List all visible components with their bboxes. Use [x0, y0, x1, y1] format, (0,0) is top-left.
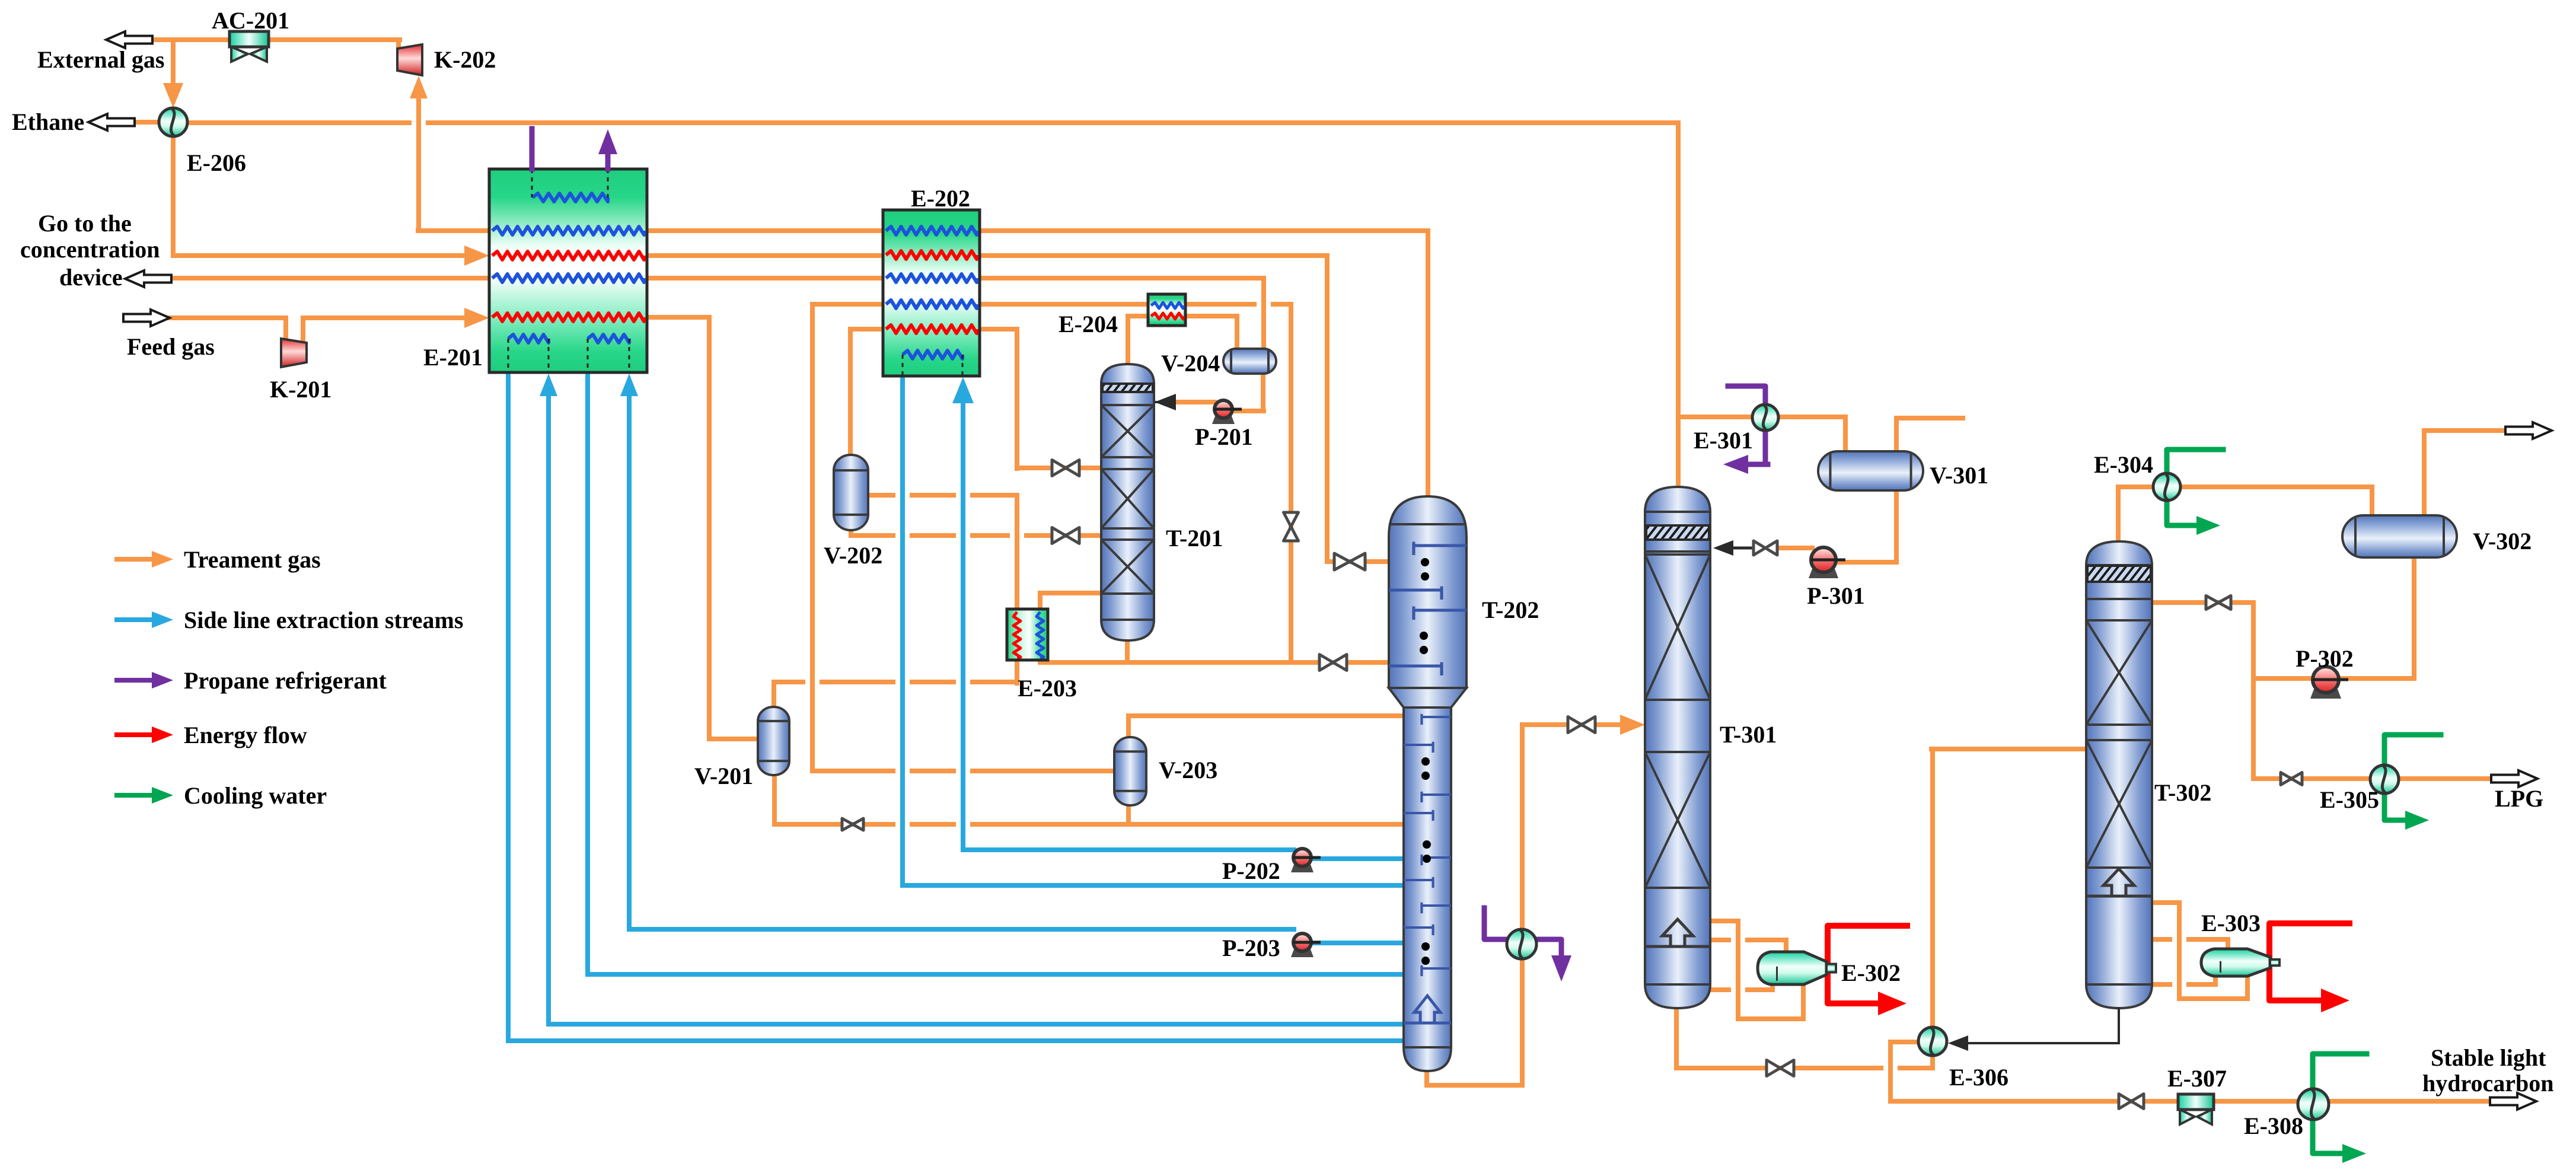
svg-text:device: device	[59, 264, 123, 291]
svg-text:E-305: E-305	[2320, 786, 2379, 813]
svg-text:E-304: E-304	[2094, 451, 2153, 478]
svg-text:Go to the: Go to the	[38, 210, 132, 237]
svg-text:V-301: V-301	[1930, 462, 1988, 489]
svg-text:V-204: V-204	[1161, 350, 1220, 377]
svg-text:E-301: E-301	[1694, 427, 1753, 454]
svg-text:Energy flow: Energy flow	[184, 722, 307, 748]
svg-text:Feed gas: Feed gas	[127, 333, 215, 360]
svg-text:AC-201: AC-201	[212, 7, 289, 34]
svg-text:T-202: T-202	[1482, 597, 1539, 623]
svg-text:V-202: V-202	[824, 542, 882, 569]
svg-text:E-303: E-303	[2201, 910, 2261, 936]
svg-text:LPG: LPG	[2495, 785, 2543, 812]
svg-text:concentration: concentration	[20, 236, 160, 263]
svg-text:Side line extraction streams: Side line extraction streams	[184, 607, 463, 633]
svg-text:E-307: E-307	[2167, 1065, 2227, 1092]
svg-text:External gas: External gas	[37, 46, 164, 73]
svg-text:E-203: E-203	[1018, 675, 1077, 702]
svg-text:E-204: E-204	[1059, 311, 1118, 337]
svg-text:P-201: P-201	[1195, 423, 1253, 450]
svg-text:E-206: E-206	[187, 149, 246, 176]
svg-text:T-201: T-201	[1166, 525, 1223, 552]
svg-text:Cooling water: Cooling water	[184, 782, 327, 809]
svg-text:E-302: E-302	[1841, 960, 1901, 986]
svg-text:E-306: E-306	[1949, 1064, 2008, 1091]
svg-text:P-202: P-202	[1222, 858, 1280, 884]
svg-text:Treament gas: Treament gas	[184, 546, 321, 573]
svg-text:Propane refrigerant: Propane refrigerant	[184, 667, 387, 694]
svg-text:hydrocarbon: hydrocarbon	[2422, 1070, 2554, 1097]
svg-text:K-202: K-202	[434, 46, 496, 73]
svg-text:T-301: T-301	[1720, 721, 1777, 748]
svg-text:V-203: V-203	[1159, 757, 1217, 783]
svg-text:V-302: V-302	[2473, 528, 2532, 554]
svg-text:E-308: E-308	[2244, 1113, 2303, 1139]
svg-text:P-302: P-302	[2296, 645, 2354, 672]
svg-text:V-201: V-201	[694, 763, 753, 789]
svg-text:P-203: P-203	[1222, 935, 1280, 961]
svg-text:E-202: E-202	[911, 185, 970, 212]
svg-text:P-301: P-301	[1807, 582, 1865, 609]
svg-text:Ethane: Ethane	[12, 109, 84, 135]
svg-text:Stable light: Stable light	[2431, 1044, 2546, 1071]
svg-text:T-302: T-302	[2154, 779, 2211, 806]
svg-text:E-201: E-201	[423, 344, 483, 371]
svg-text:K-201: K-201	[270, 376, 331, 403]
